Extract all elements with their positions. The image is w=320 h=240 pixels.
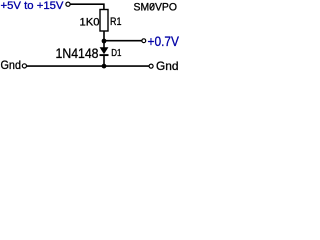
- svg-text:+5V to +15V: +5V to +15V: [1, 0, 65, 12]
- svg-text:D1: D1: [111, 48, 122, 59]
- svg-text:+0.7V: +0.7V: [148, 34, 180, 49]
- svg-text:SM0VPO: SM0VPO: [134, 2, 178, 14]
- svg-text:Gnd: Gnd: [156, 59, 179, 73]
- svg-text:1K0: 1K0: [80, 16, 100, 28]
- svg-text:Gnd: Gnd: [1, 58, 22, 72]
- svg-text:R1: R1: [110, 16, 122, 28]
- svg-text:1N4148: 1N4148: [56, 45, 99, 61]
